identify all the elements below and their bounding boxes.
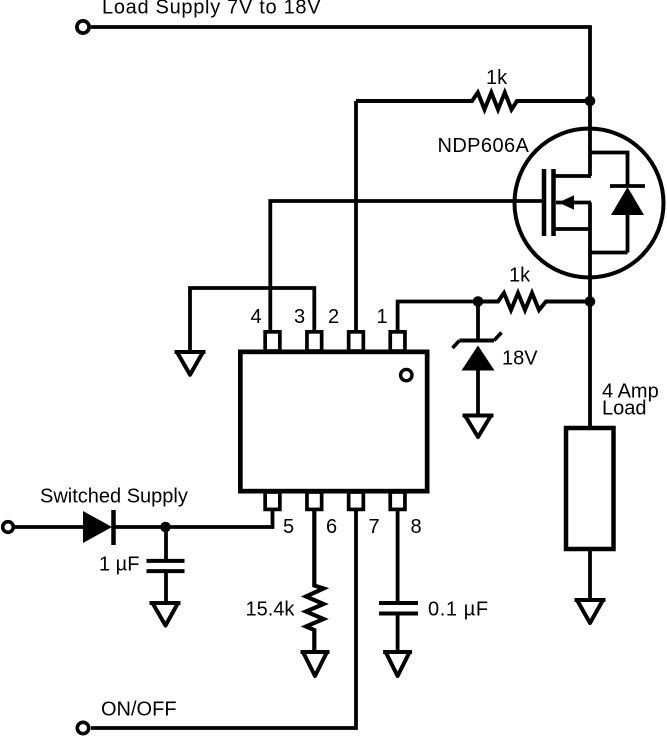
wire R1 to pin 2 <box>354 101 358 331</box>
terminal J3 ON/OFF <box>77 722 88 733</box>
svg-text:1 µF: 1 µF <box>99 554 139 576</box>
ground G4 (R3) <box>301 652 330 676</box>
resistor R3 15.4k <box>306 510 324 652</box>
terminal J2 Switched Supply <box>3 522 14 533</box>
IC U1 pin 6 stub (bottom) <box>307 492 322 509</box>
wire pin 7 to ON/OFF <box>91 510 356 728</box>
svg-text:3: 3 <box>294 306 305 328</box>
zener diode D2 18V <box>453 302 502 416</box>
ground G2 (zener) <box>463 416 494 438</box>
load RL 4 Amp Load <box>566 428 614 549</box>
svg-text:8: 8 <box>410 516 421 538</box>
IC U1 pin 7 stub (bottom) <box>349 492 364 509</box>
svg-text:18V: 18V <box>502 348 538 370</box>
wire load to ground <box>588 549 592 600</box>
ground G3 (C1) <box>150 603 181 626</box>
svg-text:6: 6 <box>326 516 337 538</box>
junction node drain/R1 <box>585 96 596 107</box>
svg-text:1: 1 <box>376 306 387 328</box>
IC U1 pin 3 stub (top) <box>307 332 322 351</box>
junction node zener/R2 <box>473 296 484 307</box>
wire pin 1 to zener node <box>398 302 478 332</box>
ground G5 (C2) <box>383 652 412 676</box>
wire MOSFET source to load <box>588 277 592 428</box>
resistor R2 1k (gate-source) <box>478 293 590 310</box>
junction node source/R2 <box>585 296 596 307</box>
wire J2 to diode <box>15 525 83 529</box>
resistor R1 1k (top) <box>356 93 590 110</box>
svg-text:ON/OFF: ON/OFF <box>101 699 177 721</box>
ground G1 (pin 3) <box>175 352 206 375</box>
svg-text:5: 5 <box>283 516 294 538</box>
wire diode to pin 5 <box>113 510 273 527</box>
IC U1 pin 8 stub (bottom) <box>390 492 405 509</box>
svg-text:7: 7 <box>368 516 379 538</box>
capacitor C1 1uF <box>147 527 185 603</box>
svg-text:1k: 1k <box>509 265 531 287</box>
wire MOSFET gate <box>270 201 542 331</box>
svg-text:2: 2 <box>328 306 339 328</box>
svg-text:NDP606A: NDP606A <box>438 135 530 157</box>
IC U1 pin 1 indicator <box>401 369 412 380</box>
IC U1 body <box>240 352 427 491</box>
terminal J1 Load Supply <box>77 21 89 33</box>
label 4 Amp Load <box>602 381 659 420</box>
junction node Vin/C1 <box>160 522 171 533</box>
svg-text:Switched Supply: Switched Supply <box>40 486 188 508</box>
wire pin 3 to ground <box>190 288 314 352</box>
svg-text:0.1 µF: 0.1 µF <box>428 599 489 621</box>
IC U1 pin 2 stub (top) <box>349 332 364 351</box>
IC U1 pin 5 stub (bottom) <box>265 492 280 509</box>
diode D1 <box>83 510 114 545</box>
IC U1 pin 1 stub (top) <box>390 332 405 351</box>
svg-text:15.4k: 15.4k <box>246 599 296 621</box>
capacitor C2 0.1uF <box>379 510 418 652</box>
wire load supply rail to MOSFET drain <box>91 27 590 176</box>
svg-text:4: 4 <box>250 306 261 328</box>
ground G6 (load) <box>575 600 606 623</box>
transistor Q1 NDP606A MOSFET <box>515 129 664 278</box>
svg-text:Load Supply 7V to 18V: Load Supply 7V to 18V <box>102 0 321 19</box>
svg-text:1k: 1k <box>486 67 508 89</box>
IC U1 pin 4 stub (top) <box>265 332 280 351</box>
svg-text:Load: Load <box>602 398 647 420</box>
